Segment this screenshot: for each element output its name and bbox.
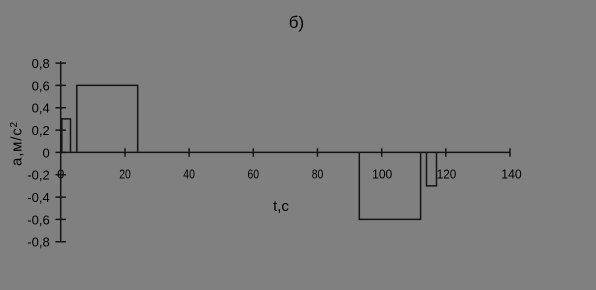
- svg-text:-0,2: -0,2: [27, 168, 49, 183]
- pulse A: 0.3 m/s2 step near t=0..3: [62, 119, 71, 152]
- svg-text:140: 140: [501, 166, 521, 181]
- svg-text:40: 40: [183, 166, 195, 181]
- y-axis title "а,м/с²" (rotated): [9, 121, 26, 166]
- svg-text:-0,4: -0,4: [27, 190, 49, 205]
- svg-text:0: 0: [42, 145, 49, 160]
- pulse D: -0.3 m/s2 step t=114..117: [427, 152, 437, 186]
- svg-text:0,2: 0,2: [32, 123, 50, 138]
- svg-text:80: 80: [312, 166, 324, 181]
- pulse C: -0.6 m/s2 step t=93..112: [359, 152, 420, 219]
- svg-text:б): б): [289, 13, 304, 32]
- svg-text:0,6: 0,6: [32, 78, 50, 93]
- svg-text:t,c: t,c: [273, 198, 289, 215]
- svg-text:0,4: 0,4: [32, 101, 50, 116]
- y-axis ticks: [55, 63, 66, 242]
- svg-text:20: 20: [119, 166, 131, 181]
- x-axis ticks: [125, 148, 510, 157]
- y-axis line: [60, 61, 62, 243]
- svg-text:60: 60: [248, 166, 260, 181]
- pulse B: 0.6 m/s2 step t=5..24: [77, 85, 138, 152]
- svg-text:100: 100: [372, 166, 392, 181]
- x-axis line: [61, 151, 511, 153]
- svg-text:120: 120: [437, 166, 457, 181]
- svg-text:-0,8: -0,8: [27, 235, 49, 250]
- svg-text:а,м/с2: а,м/с2: [9, 121, 26, 166]
- svg-text:0,8: 0,8: [32, 56, 50, 71]
- svg-text:-0,6: -0,6: [27, 212, 49, 227]
